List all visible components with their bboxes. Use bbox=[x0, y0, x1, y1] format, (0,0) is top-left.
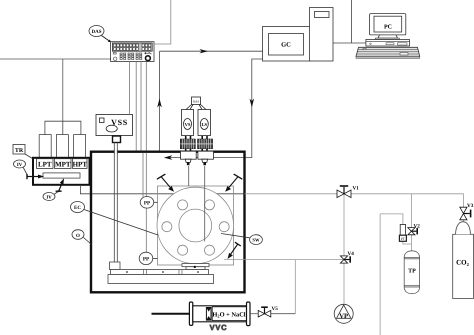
equilibrium cell rect bbox=[158, 186, 234, 265]
DAS connector squares row1 bbox=[114, 44, 151, 47]
flange inner circle bbox=[179, 209, 212, 242]
platform base plate bbox=[108, 275, 214, 284]
svg-text:V2: V2 bbox=[414, 224, 421, 230]
svg-text:DAS: DAS bbox=[91, 29, 101, 35]
inlet valve arrow upper bbox=[27, 174, 44, 179]
wires DAS down to chamber bbox=[130, 62, 147, 151]
wire DAS to GC with right arrow bbox=[160, 49, 263, 53]
svg-text:MPT: MPT bbox=[55, 161, 71, 169]
svg-text:EC: EC bbox=[74, 205, 81, 211]
bolt holes bbox=[162, 200, 229, 255]
svg-text:V1: V1 bbox=[353, 186, 360, 192]
node DAS label ellipse bbox=[89, 26, 111, 43]
VSS rod bbox=[114, 143, 117, 263]
LPT transducer bbox=[37, 159, 54, 169]
gas chromatograph GC bbox=[263, 27, 311, 62]
transducer columns bbox=[39, 135, 85, 159]
node O bbox=[72, 230, 92, 245]
svg-text:VP: VP bbox=[339, 313, 348, 320]
svg-text:LPT: LPT bbox=[38, 161, 52, 169]
syringe right flange bbox=[247, 302, 251, 326]
node PP upper bbox=[140, 197, 157, 209]
VS gland-to-block stems bbox=[186, 149, 207, 152]
computer PC monitor bbox=[370, 14, 406, 40]
svg-text:VVC: VVC bbox=[210, 323, 228, 332]
svg-text:HPT: HPT bbox=[73, 161, 88, 169]
valve V1 bbox=[337, 186, 359, 198]
pipe V1 down to V4 down to VP bbox=[343, 194, 345, 305]
anchor arrow bottom-right bbox=[228, 242, 241, 259]
svg-text:DAS: DAS bbox=[193, 100, 199, 104]
anchor arrow top-left bbox=[157, 174, 174, 192]
svg-text:PP: PP bbox=[144, 201, 151, 207]
pipe branch to syringe bbox=[294, 260, 296, 314]
VSS connector bbox=[113, 136, 121, 143]
syringe plunger rod bbox=[152, 313, 207, 315]
platform top plate bbox=[111, 270, 209, 275]
pipe cell to V4 bbox=[224, 259, 344, 261]
wire top-left horizontal to DAS bbox=[0, 58, 111, 60]
VSS box bbox=[96, 115, 133, 136]
svg-text:V3: V3 bbox=[467, 203, 474, 209]
wire probes inside chamber bbox=[143, 153, 146, 253]
svg-text:TR: TR bbox=[15, 148, 24, 154]
VS mounting block bbox=[181, 151, 197, 165]
pipe branch down through V2 to TP bbox=[410, 194, 412, 251]
syringe left flange bbox=[189, 302, 192, 325]
pressure transducer box (thick) bbox=[33, 158, 90, 185]
computer case bbox=[366, 40, 410, 47]
LS sensor body bbox=[198, 110, 211, 136]
pressure gauge PT stem bbox=[399, 225, 406, 242]
syringe solution label bbox=[212, 307, 246, 321]
valve V2 bbox=[408, 224, 420, 235]
svg-text:O: O bbox=[76, 233, 80, 239]
svg-text:V4: V4 bbox=[348, 251, 355, 257]
VS tube bbox=[188, 166, 190, 186]
svg-text:PC: PC bbox=[384, 25, 392, 31]
svg-text:IV: IV bbox=[46, 195, 52, 201]
svg-text:TP: TP bbox=[408, 269, 416, 275]
gas cylinder CO2 bbox=[453, 222, 474, 299]
node EC bbox=[71, 202, 159, 236]
computer keyboard bbox=[356, 47, 420, 58]
flange outer circle bbox=[157, 187, 234, 264]
tube HPT to cell bbox=[80, 185, 244, 194]
HPT transducer bbox=[73, 159, 88, 169]
node SW bbox=[221, 234, 262, 245]
cell support block bbox=[182, 264, 209, 270]
LS mounting block bbox=[198, 151, 214, 165]
valve V3 bbox=[460, 203, 474, 220]
VS sensor body bbox=[182, 110, 194, 136]
svg-text:SW: SW bbox=[252, 237, 260, 242]
svg-text:VS: VS bbox=[185, 122, 191, 127]
pipe cell to V1 to V3 bbox=[245, 194, 464, 222]
DAS front small parts bbox=[113, 52, 151, 60]
wire branch down to transducer bracket bbox=[62, 59, 64, 121]
LS packing gland (hatched) bbox=[198, 136, 213, 149]
svg-text:V5: V5 bbox=[272, 306, 279, 312]
rod foot bbox=[110, 262, 121, 270]
wire GC to PC bbox=[333, 0, 366, 43]
sample cylinder TP bbox=[404, 251, 419, 294]
node IV label lower bbox=[43, 191, 60, 201]
valve V4 bbox=[340, 251, 354, 263]
inlet valve arrow lower bbox=[56, 178, 64, 191]
anchor arrow top-right bbox=[225, 174, 242, 192]
wire cell riser to GC line with up arrow bbox=[157, 51, 162, 151]
syringe port to V5 bbox=[250, 313, 295, 315]
wire bracket above columns bbox=[45, 121, 81, 134]
rod feedthrough gap in chamber top bbox=[114, 150, 117, 155]
wire GC return down and into cell with left arrow and down arrow bbox=[164, 59, 263, 160]
wire DAS up and off top bbox=[154, 0, 171, 44]
svg-text:IV: IV bbox=[17, 162, 23, 168]
thermostatic chamber box (thick) bbox=[91, 152, 245, 293]
VS packing gland (hatched) bbox=[180, 136, 195, 149]
MPT transducer bbox=[55, 159, 72, 169]
manifold channel bbox=[43, 173, 80, 178]
node TR label bbox=[13, 145, 33, 159]
vacuum pump VP bbox=[334, 304, 353, 323]
sensor junction box bbox=[186, 97, 206, 110]
valve V5 bbox=[258, 306, 278, 317]
DAS connector squares row2 bbox=[114, 48, 151, 51]
svg-text:PP: PP bbox=[143, 257, 150, 263]
syringe barrel bbox=[193, 306, 247, 322]
VVC label bbox=[210, 323, 228, 332]
node PP lower bbox=[139, 252, 157, 264]
svg-text:LS: LS bbox=[201, 122, 207, 127]
syringe piston bbox=[206, 307, 212, 321]
svg-text:GC: GC bbox=[281, 42, 291, 49]
GC tower module bbox=[310, 8, 334, 62]
node IV label upper bbox=[14, 160, 28, 175]
LS dip tube bbox=[204, 166, 206, 242]
data acquisition unit DAS box bbox=[111, 42, 154, 62]
pipe gauge tee bbox=[380, 214, 411, 335]
